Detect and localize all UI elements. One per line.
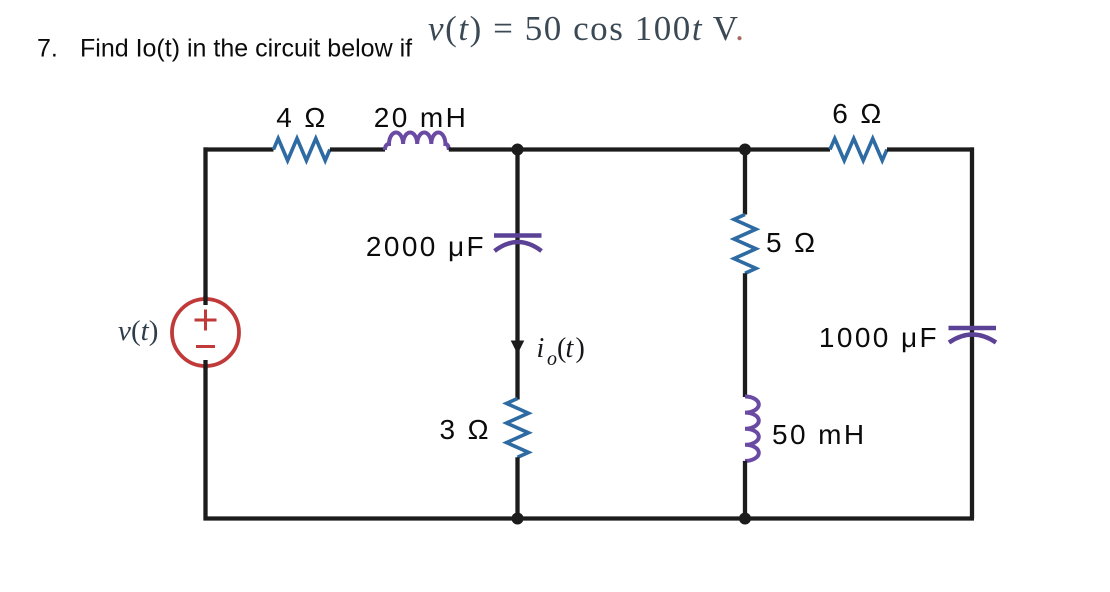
inductor L 20mH: [385, 133, 449, 151]
wire left rail upper: [203, 147, 207, 300]
label 6 ohm: [832, 98, 883, 129]
svg-text:20 mH: 20 mH: [374, 102, 468, 133]
current arrow io(t): [511, 341, 525, 355]
wire right-middle branch middle: [743, 273, 747, 397]
svg-text:(: (: [131, 315, 141, 347]
capacitor C 2000uF: [494, 236, 542, 252]
svg-text:3 Ω: 3 Ω: [440, 414, 491, 445]
wire left rail lower: [203, 365, 207, 521]
wire top rail left corner to 4-ohm: [204, 147, 274, 151]
wire top rail 6-ohm to right corner: [887, 147, 974, 151]
svg-text:v: v: [118, 315, 131, 347]
resistor R 6ohm: [830, 139, 887, 161]
label 50 mH: [772, 419, 866, 450]
svg-text:): ): [149, 315, 159, 347]
label 2000 uF: [366, 231, 486, 262]
label v(t): [118, 315, 158, 347]
problem statement text: [37, 35, 412, 63]
svg-text:50 mH: 50 mH: [772, 419, 866, 450]
label 5 ohm: [766, 227, 817, 258]
junction node bottom middle: [512, 513, 524, 525]
svg-text:o: o: [547, 348, 557, 370]
svg-text:Find Io(t) in the circuit belo: Find Io(t) in the circuit below if: [80, 35, 412, 63]
wire bottom rail: [204, 516, 975, 520]
svg-text:v(t) = 50 cos 100t V.: v(t) = 50 cos 100t V.: [428, 9, 745, 48]
svg-text:i: i: [537, 333, 545, 364]
wire middle branch upper: [515, 150, 519, 400]
label 4 ohm: [276, 102, 327, 133]
svg-text:1000 μF: 1000 μF: [819, 322, 939, 353]
svg-text:2000 μF: 2000 μF: [366, 231, 486, 262]
svg-text:4 Ω: 4 Ω: [276, 102, 327, 133]
label 20 mH: [374, 102, 468, 133]
wire right-middle branch upper: [743, 150, 747, 215]
capacitor C 1000uF: [949, 328, 997, 343]
junction node top right-middle: [739, 144, 751, 156]
svg-text:): ): [576, 333, 585, 364]
label 1000 uF: [819, 322, 939, 353]
junction node top middle: [512, 144, 524, 156]
equation v(t) = 50 cos 100t V.: [428, 9, 745, 48]
label 3 ohm: [440, 414, 491, 445]
svg-text:t: t: [566, 333, 575, 364]
resistor R 4ohm: [274, 139, 330, 161]
resistor R 3ohm: [507, 399, 529, 458]
svg-text:6 Ω: 6 Ω: [832, 98, 883, 129]
label io(t): [537, 333, 585, 370]
junction node bottom right-middle: [739, 513, 751, 525]
wire top rail 20mH to 6-ohm: [449, 147, 830, 151]
resistor R 5ohm: [734, 215, 756, 274]
wire top rail between 4-ohm and 20mH: [330, 147, 385, 151]
voltage source v(t): [172, 296, 239, 369]
inductor L 50mH: [745, 397, 759, 461]
wire middle branch lower: [515, 457, 519, 518]
wire right rail: [970, 147, 974, 518]
svg-text:5 Ω: 5 Ω: [766, 227, 817, 258]
svg-text:7.: 7.: [37, 35, 58, 63]
wire right-middle branch lower: [743, 461, 747, 519]
